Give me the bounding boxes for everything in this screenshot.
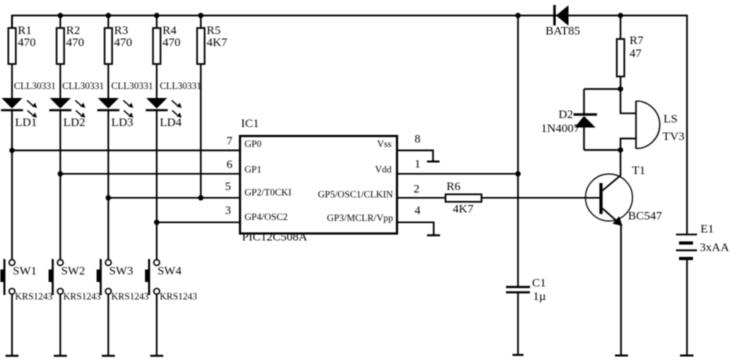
transistor T1 BC547 [586,150,663,226]
svg-text:6: 6 [227,157,233,171]
svg-text:KRS1243: KRS1243 [111,292,149,302]
svg-text:LD1: LD1 [15,115,37,129]
wire top supply rail [12,16,687,235]
wire emitter to ground [620,225,622,356]
wire D2 bottom to collector node [584,149,621,151]
wire LD2 cathode to SW2 [59,110,61,260]
wire LD4 cathode to SW4 [156,110,158,260]
svg-text:LD3: LD3 [111,115,133,129]
switch SW1 KRS1243 [0,259,52,302]
svg-text:T1: T1 [632,163,645,177]
svg-text:SW3: SW3 [109,263,133,277]
svg-text:2: 2 [414,181,420,195]
svg-text:LD4: LD4 [160,115,182,129]
svg-text:3xAA: 3xAA [700,240,730,254]
wire Vdd pin1 to +V rail [397,171,521,176]
svg-text:470: 470 [114,35,132,49]
svg-text:LD2: LD2 [63,115,85,129]
svg-text:KRS1243: KRS1243 [15,292,53,302]
wire R6 to T1 base [482,197,600,199]
svg-text:R6: R6 [447,179,461,193]
battery E1 3xAA [676,221,729,258]
wire GP1 bus row pin6 [58,171,240,176]
wire SW2 to ground [59,294,61,356]
svg-text:GP2/T0CKI: GP2/T0CKI [245,188,292,199]
svg-text:KRS1243: KRS1243 [160,292,198,302]
resistor R2 [57,16,65,99]
wire speaker bottom lead [621,139,637,151]
svg-text:CLL30331: CLL30331 [14,82,56,92]
ground SW4 [150,355,163,357]
svg-text:7: 7 [227,134,233,148]
svg-text:4K7: 4K7 [207,35,228,49]
svg-text:GP5/OSC1/CLKIN: GP5/OSC1/CLKIN [318,189,393,200]
node rail-R4 [154,13,159,18]
wire LD1 cathode to SW1 [11,110,13,260]
wire SW3 to ground [107,294,109,356]
svg-text:5: 5 [225,179,231,193]
resistor R5 [197,16,205,198]
wire GP2 bus row pin5 [106,195,240,200]
LED LD2 [49,82,104,129]
diode D2 1N4007 [541,89,597,150]
resistor R3 [105,16,113,99]
wire speaker top lead [621,89,637,113]
wire C1 to ground [517,292,519,355]
svg-text:4: 4 [415,203,421,217]
node rail-R2 [58,13,63,18]
svg-text:4K7: 4K7 [453,201,474,215]
ground C1 [513,354,524,356]
svg-text:PIC12C508A: PIC12C508A [242,230,308,244]
svg-text:470: 470 [163,35,181,49]
wire GP4 bus row pin3 [154,220,240,225]
ground GP3 [427,234,440,236]
svg-text:GP0: GP0 [245,139,262,150]
svg-text:KRS1243: KRS1243 [63,292,101,302]
resistor R7 [617,16,644,90]
switch SW3 KRS1243 [97,259,149,302]
node rail-Vdd branch [515,13,520,18]
svg-text:CLL30331: CLL30331 [111,82,153,92]
svg-text:BAT85: BAT85 [546,23,581,37]
node collector [618,147,623,152]
wire GP0 bus row pin7 [9,148,240,153]
LED LD4 [146,82,202,129]
svg-text:TV3: TV3 [663,129,685,143]
ground Vss [427,161,440,163]
svg-text:470: 470 [18,35,36,49]
svg-text:1: 1 [415,157,421,171]
svg-text:1µ: 1µ [533,289,546,303]
node R7 bottom [618,86,623,91]
svg-text:D2: D2 [559,107,574,121]
wire LD3 cathode to SW3 [107,110,109,260]
ground SW2 [54,355,67,357]
speaker LS TV3 [636,101,685,149]
node rail-R7 [618,13,623,18]
op IC1 PIC12C508A body [240,116,397,244]
LED LD3 [97,82,153,129]
svg-text:CLL30331: CLL30331 [160,82,202,92]
ground battery [680,355,694,357]
wire R7 node to D2 top [584,88,621,90]
switch SW2 KRS1243 [49,259,101,302]
svg-text:3: 3 [225,203,231,217]
LED LD1 [1,82,56,129]
svg-text:GP3/MCLR/Vpp: GP3/MCLR/Vpp [327,213,393,224]
svg-text:SW2: SW2 [61,263,85,277]
resistor R6 [446,179,482,215]
svg-text:CLL30331: CLL30331 [62,82,104,92]
svg-text:SW4: SW4 [158,263,182,277]
svg-text:8: 8 [415,132,421,146]
svg-text:R7: R7 [630,33,644,47]
svg-text:BC547: BC547 [628,208,662,222]
wire battery to ground [686,259,688,356]
ground emitter [615,355,628,357]
resistor R1 [8,16,16,99]
node rail-R3 [106,13,111,18]
switch SW4 KRS1243 [145,259,197,302]
wire SW1 to ground [11,294,13,356]
svg-text:470: 470 [66,35,84,49]
svg-text:Vdd: Vdd [375,164,392,175]
svg-text:GP4/OSC2: GP4/OSC2 [245,212,288,223]
ground SW3 [102,355,115,357]
diode BAT85 [546,5,581,37]
svg-text:GP1: GP1 [245,164,262,175]
svg-text:E1: E1 [701,221,714,235]
svg-text:IC1: IC1 [241,116,259,130]
node rail-R5 [198,13,203,18]
svg-text:C1: C1 [532,275,546,289]
wire Vss pin8 to ground [397,150,433,161]
ground SW1 [6,355,19,357]
svg-text:47: 47 [630,46,642,60]
resistor R4 [153,16,161,99]
svg-text:1N4007: 1N4007 [541,121,580,135]
wire pin2 to R6 [397,197,446,199]
svg-text:LS: LS [664,112,678,126]
svg-text:Vss: Vss [377,139,392,150]
wire pin4 to ground [397,222,434,235]
wire +V vertical to C1 [517,16,519,288]
wire SW4 to ground [156,294,158,356]
capacitor C1 [506,275,546,303]
svg-text:SW1: SW1 [13,263,37,277]
